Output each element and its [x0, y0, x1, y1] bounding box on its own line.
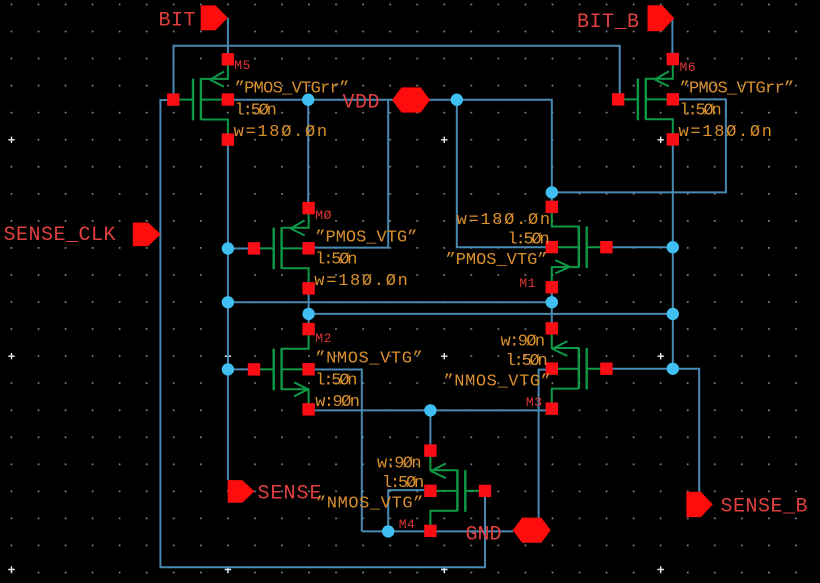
- svg-text:w:9Øn: w:9Øn: [315, 393, 358, 412]
- svg-text:l:5Øn: l:5Øn: [507, 230, 548, 249]
- svg-text:”PMOS_VTG”: ”PMOS_VTG”: [445, 251, 547, 270]
- svg-text:M5: M5: [234, 58, 251, 73]
- svg-text:l:5Øn: l:5Øn: [315, 250, 356, 269]
- svg-text:l:5Øn: l:5Øn: [382, 474, 423, 493]
- svg-text:l:5Øn: l:5Øn: [680, 101, 721, 120]
- svg-text:”NMOS_VTG”: ”NMOS_VTG”: [316, 495, 424, 514]
- svg-text:BIT_B: BIT_B: [577, 11, 640, 34]
- svg-text:l:5Øn: l:5Øn: [315, 371, 356, 390]
- svg-text:w=18Ø.Øn: w=18Ø.Øn: [314, 272, 409, 291]
- svg-text:BIT: BIT: [159, 10, 197, 33]
- svg-text:M4: M4: [399, 517, 416, 532]
- svg-text:”PMOS_VTGrr”: ”PMOS_VTGrr”: [235, 80, 349, 99]
- svg-text:”PMOS_VTGrr”: ”PMOS_VTGrr”: [680, 79, 794, 98]
- svg-text:w=18Ø.Øn: w=18Ø.Øn: [234, 123, 329, 142]
- svg-text:SENSE: SENSE: [258, 482, 323, 505]
- svg-text:M1: M1: [519, 276, 536, 291]
- svg-text:w:9Øn: w:9Øn: [377, 455, 420, 474]
- svg-text:”PMOS_VTG”: ”PMOS_VTG”: [315, 228, 417, 247]
- svg-text:w=18Ø.Øn: w=18Ø.Øn: [457, 211, 552, 230]
- svg-text:M3: M3: [526, 395, 543, 410]
- svg-text:”NMOS_VTG”: ”NMOS_VTG”: [315, 349, 423, 368]
- svg-text:GND: GND: [466, 524, 502, 547]
- svg-text:”NMOS_VTG”: ”NMOS_VTG”: [443, 372, 551, 391]
- svg-text:M6: M6: [680, 60, 697, 75]
- svg-text:w:9Øn: w:9Øn: [500, 332, 543, 351]
- svg-text:SENSE_B: SENSE_B: [721, 496, 809, 519]
- svg-text:l:5Øn: l:5Øn: [505, 352, 546, 371]
- svg-text:MØ: MØ: [315, 208, 332, 223]
- svg-text:l:5Øn: l:5Øn: [235, 102, 276, 121]
- svg-text:M2: M2: [315, 331, 332, 346]
- svg-text:SENSE_CLK: SENSE_CLK: [4, 224, 117, 247]
- svg-text:w=18Ø.Øn: w=18Ø.Øn: [679, 123, 774, 142]
